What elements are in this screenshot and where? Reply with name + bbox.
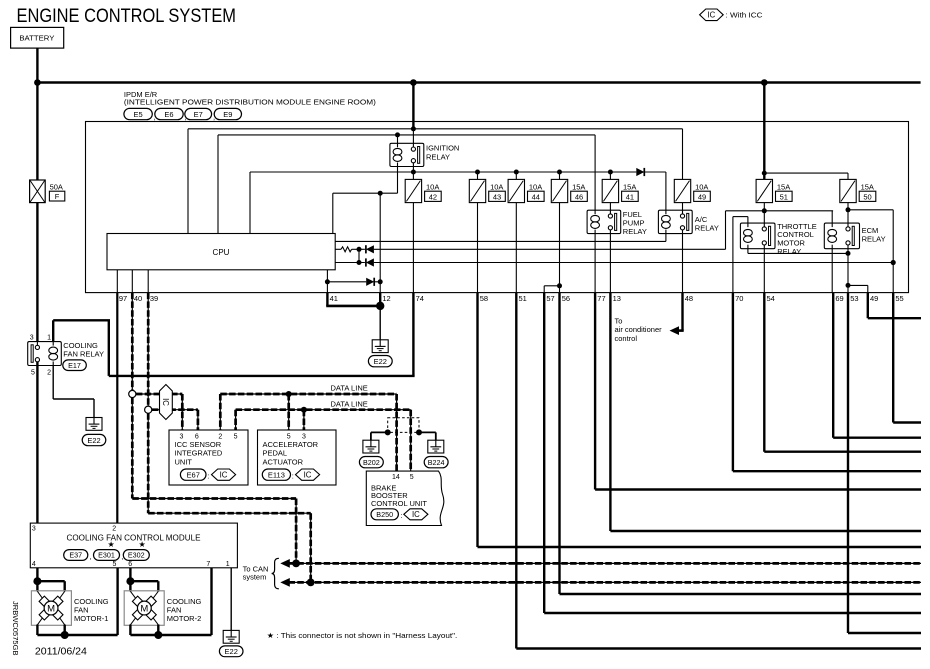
wire pin13 external to right edge xyxy=(609,293,611,531)
wire throttle contact to pin54 xyxy=(763,249,765,293)
wire pin56 external to right edge xyxy=(558,293,560,594)
IPDM E/R box xyxy=(86,122,909,293)
wire CAN line 1 xyxy=(289,562,922,564)
node pin41 diode junction xyxy=(325,279,330,284)
wire main battery bus xyxy=(36,81,921,84)
wire B drop to CPU xyxy=(217,135,219,234)
throttle control motor relay xyxy=(740,223,775,249)
wire A/C contact to pin48 xyxy=(682,234,684,293)
node bus-fuse51 drop junction xyxy=(761,79,768,86)
wire pin54 external to right edge xyxy=(763,293,765,452)
svg-text:air conditioner: air conditioner xyxy=(615,325,663,334)
svg-text:RELAY: RELAY xyxy=(695,224,719,233)
svg-text:INTEGRATED: INTEGRATED xyxy=(175,449,223,458)
svg-text:44: 44 xyxy=(532,192,540,201)
connector E302 xyxy=(123,550,149,561)
svg-text::: : xyxy=(207,472,209,481)
wire pin40 dashed xyxy=(131,293,133,393)
wire branch to pin49 xyxy=(848,284,868,286)
connector E5 xyxy=(124,108,152,119)
wire to CPU from ignition coil xyxy=(332,193,334,233)
diode D1 on wire C xyxy=(636,168,644,176)
svg-text:E113: E113 xyxy=(268,470,285,479)
wire C drop to CPU xyxy=(249,172,251,234)
wire ECM contact bottom xyxy=(847,249,849,293)
arrow to air conditioner control xyxy=(670,326,680,335)
wire pin49 external to right edge xyxy=(867,293,869,319)
svg-text:B202: B202 xyxy=(363,458,380,467)
node throttle-ECM junction xyxy=(846,251,851,256)
connector E22 (module) xyxy=(219,646,243,657)
svg-text:49: 49 xyxy=(870,294,878,303)
svg-text:3: 3 xyxy=(32,526,36,533)
IC hexagon (E67) xyxy=(212,469,236,480)
wire fuse51 bottom xyxy=(763,203,765,211)
wire fuse44 to pin51 xyxy=(515,203,517,293)
wire CPU line2 resistor segment xyxy=(335,248,341,250)
node motor1 top junction xyxy=(33,577,41,585)
resistor R1 xyxy=(341,247,352,252)
wire module pin1 to ground xyxy=(230,568,232,631)
svg-text:E7: E7 xyxy=(194,110,203,119)
svg-text:E22: E22 xyxy=(225,647,238,656)
svg-text:6: 6 xyxy=(128,561,132,568)
diode D3 xyxy=(366,258,374,266)
legend IC hexagon : With ICC xyxy=(700,9,724,21)
svg-text:E302: E302 xyxy=(128,551,145,560)
wire A drop into fuse 49 xyxy=(682,129,684,180)
svg-text:1: 1 xyxy=(47,335,51,342)
svg-text:2: 2 xyxy=(47,369,51,376)
node data line A accel junction xyxy=(286,391,292,397)
node shield-B224 junction xyxy=(416,429,422,435)
svg-text:COOLING: COOLING xyxy=(63,341,98,350)
svg-text:5: 5 xyxy=(31,369,35,376)
node ECM contact split junction xyxy=(846,283,851,288)
connector B250 xyxy=(371,509,398,520)
connector E22 (pin12) xyxy=(368,356,392,367)
wire data line B to brake pin5 xyxy=(410,410,412,471)
wire pin12 external xyxy=(379,293,381,306)
IC marker hexagon (vertical) xyxy=(160,385,173,420)
wire fuse51 rail xyxy=(726,210,834,212)
svg-text:IC: IC xyxy=(304,470,312,479)
wire bus drop to fuse 51 xyxy=(763,83,765,181)
wire fuse44 riser xyxy=(515,172,517,179)
svg-text:ACTUATOR: ACTUATOR xyxy=(263,457,304,466)
svg-text:BATTERY: BATTERY xyxy=(19,33,54,42)
svg-text:54: 54 xyxy=(767,294,775,303)
fuse 44 10A xyxy=(508,179,524,202)
svg-text:15A: 15A xyxy=(623,183,636,192)
wire ECM coil top xyxy=(831,211,833,223)
wire data line A main xyxy=(220,393,396,395)
svg-text:2: 2 xyxy=(218,434,222,441)
svg-text:4: 4 xyxy=(32,561,36,568)
wire ignition coil bottom xyxy=(397,167,399,194)
svg-text:43: 43 xyxy=(493,192,501,201)
svg-text:55: 55 xyxy=(895,294,903,303)
diode D2 xyxy=(366,245,374,253)
fuse 51 15A xyxy=(756,179,772,202)
shield dotted box xyxy=(388,418,419,433)
connector E67 xyxy=(180,469,206,480)
wire to B224 ground xyxy=(419,431,436,433)
wire C to A/C relay coil xyxy=(665,172,667,210)
svg-text:CPU: CPU xyxy=(213,248,230,257)
svg-text:MOTOR-1: MOTOR-1 xyxy=(74,614,108,623)
battery B1 xyxy=(11,27,64,48)
wire data line B to ICC pin6 xyxy=(152,409,198,411)
svg-text:1: 1 xyxy=(226,561,230,568)
svg-text:(INTELLIGENT POWER DISTRIBUTIO: (INTELLIGENT POWER DISTRIBUTION MODULE E… xyxy=(124,98,377,107)
connector B202 xyxy=(359,457,383,468)
svg-text:B224: B224 xyxy=(428,458,445,467)
svg-text:UNIT: UNIT xyxy=(175,457,193,466)
wire fuse41 riser xyxy=(609,172,611,179)
wire fuse49 to A/C contact xyxy=(682,203,684,217)
svg-text:10A: 10A xyxy=(490,183,503,192)
svg-text::: : xyxy=(292,472,294,481)
svg-text:42: 42 xyxy=(429,192,437,201)
ECM relay xyxy=(824,223,859,249)
svg-text:7: 7 xyxy=(206,561,210,568)
svg-text:IC: IC xyxy=(161,398,170,406)
svg-text:2011/06/24: 2011/06/24 xyxy=(35,646,88,657)
wire motor1 to module pin5 xyxy=(65,634,118,636)
op ignition relay feed xyxy=(412,129,414,147)
connector E22 (fan relay) xyxy=(82,434,106,445)
svg-text:3: 3 xyxy=(302,434,306,441)
wire fuel pump contact to pin13 xyxy=(609,234,611,293)
svg-text:CONTROL UNIT: CONTROL UNIT xyxy=(371,499,427,508)
svg-text:JRBWC0575GB: JRBWC0575GB xyxy=(11,601,18,656)
wire fuse46 to pin56 xyxy=(559,203,561,293)
svg-text:15A: 15A xyxy=(861,183,874,192)
cooling fan motor-2 xyxy=(124,591,164,626)
wire A battery rail y129 xyxy=(188,128,683,130)
wire ignition contact to fuse42 xyxy=(412,167,414,180)
ground E22 (module) xyxy=(223,630,239,643)
svg-text:control: control xyxy=(615,334,638,343)
arrow CAN line 1 xyxy=(280,559,290,568)
svg-text:10A: 10A xyxy=(426,183,439,192)
svg-text:RELAY: RELAY xyxy=(777,247,801,256)
ICC sensor integrated unit xyxy=(169,430,248,485)
fuel pump relay xyxy=(587,210,621,233)
svg-text:39: 39 xyxy=(150,294,158,303)
ground E22 (pin12) xyxy=(372,340,388,353)
svg-text:IC: IC xyxy=(412,510,420,519)
wire ignition coil top lead xyxy=(397,135,399,143)
node fuse50 junction xyxy=(846,207,851,212)
connector E301 xyxy=(94,550,120,561)
wire motor2 to module pin7 xyxy=(158,634,211,636)
svg-text:50A: 50A xyxy=(50,183,63,192)
svg-text:15A: 15A xyxy=(572,183,585,192)
svg-text:77: 77 xyxy=(597,294,605,303)
svg-text:F: F xyxy=(55,192,60,201)
node pin39 data junction (open) xyxy=(145,406,152,413)
svg-text:system: system xyxy=(243,573,267,582)
wire data line A drop accel pin5 xyxy=(288,394,290,430)
svg-text:51: 51 xyxy=(519,294,527,303)
svg-text:5: 5 xyxy=(112,561,116,568)
wire fuse42 to pin74 xyxy=(412,203,414,293)
svg-text:6: 6 xyxy=(195,434,199,441)
node fuse51 junction xyxy=(762,208,767,213)
wire CPU pin39 drop xyxy=(147,270,149,293)
svg-text:53: 53 xyxy=(850,294,858,303)
IC hexagon (E113) xyxy=(296,469,320,480)
wire to B202 ground xyxy=(371,431,388,433)
wire data line B main xyxy=(236,409,411,411)
wire pin12 to ground xyxy=(379,306,381,340)
wire fuse50 bottom xyxy=(847,203,849,224)
svg-text::: : xyxy=(400,511,402,520)
fuse 46 15A xyxy=(551,179,567,202)
connector E7 xyxy=(185,108,212,119)
svg-text:,: , xyxy=(90,552,92,561)
wire CPU line3 xyxy=(335,262,365,264)
cooling fan relay E17 xyxy=(28,342,62,366)
svg-text:49: 49 xyxy=(698,192,706,201)
node wire C fuse44 junction xyxy=(514,170,519,175)
svg-text:E17: E17 xyxy=(68,361,81,370)
node battery-bus junction xyxy=(34,79,41,86)
connector E113 xyxy=(262,469,290,480)
cooling fan motor-1 xyxy=(31,591,71,626)
wire battery vertical xyxy=(36,48,38,180)
wire line2-line3 tie xyxy=(358,249,360,262)
wire pin58 external to right edge xyxy=(476,293,478,547)
node motor2 top junction xyxy=(126,577,134,585)
svg-text:46: 46 xyxy=(575,192,583,201)
fuse 50 15A xyxy=(840,179,856,202)
svg-text:IGNITION: IGNITION xyxy=(426,144,459,153)
svg-text:69: 69 xyxy=(835,294,843,303)
CPU U1 xyxy=(107,234,335,270)
wire fuel pump coil top xyxy=(594,135,596,210)
svg-text:13: 13 xyxy=(613,294,621,303)
svg-text:E67: E67 xyxy=(187,470,200,479)
svg-text:DATA LINE: DATA LINE xyxy=(331,399,368,408)
svg-text:M: M xyxy=(140,603,148,614)
wire CPU pin40 drop xyxy=(131,270,133,293)
svg-text:PEDAL: PEDAL xyxy=(263,449,288,458)
svg-text:41: 41 xyxy=(330,294,338,303)
svg-text:B250: B250 xyxy=(376,510,393,519)
wire battery through fan relay contact xyxy=(36,362,38,523)
wire fuse51 to throttle contact xyxy=(763,211,765,223)
wire pin53 external to right edge xyxy=(847,293,849,633)
wire motor1 top feed xyxy=(37,580,64,582)
svg-text:To: To xyxy=(615,316,623,325)
connector B224 xyxy=(424,457,448,468)
connector E37 xyxy=(64,550,88,561)
wire pin55 external to right edge xyxy=(892,293,894,423)
svg-text:E22: E22 xyxy=(87,436,100,445)
ground B224 xyxy=(428,440,444,453)
svg-text:57: 57 xyxy=(546,294,554,303)
connector E6 xyxy=(155,108,183,119)
wire CPU pin97 drop xyxy=(116,270,118,293)
brake booster control unit xyxy=(366,471,444,525)
node wire C fuse46 junction xyxy=(557,170,562,175)
wire B coil rail y135 xyxy=(218,134,595,136)
wire pin48 to A/C control xyxy=(681,293,683,331)
wire pin77 external to right edge xyxy=(594,293,596,490)
wire A/C coil bottom to CPU line1 xyxy=(665,234,667,242)
wire module pin6 xyxy=(129,568,131,581)
svg-text:74: 74 xyxy=(416,294,424,303)
svg-text:10A: 10A xyxy=(695,183,708,192)
wire fuse46 riser xyxy=(559,172,561,179)
wire pin51 external to right edge xyxy=(515,293,517,649)
wire fuse41 to fuel pump contact xyxy=(609,203,611,217)
node bus-ignition drop junction xyxy=(410,79,417,86)
A/C relay xyxy=(658,210,692,233)
fuse 41 15A xyxy=(602,179,618,202)
node line3 junction xyxy=(357,260,362,265)
svg-text:3: 3 xyxy=(180,434,184,441)
svg-text:56: 56 xyxy=(562,294,570,303)
svg-text:RELAY: RELAY xyxy=(862,235,886,244)
svg-text:E22: E22 xyxy=(374,357,387,366)
wire pin57 external to right edge xyxy=(543,293,545,613)
svg-text:41: 41 xyxy=(626,192,634,201)
svg-text:IC: IC xyxy=(707,11,715,20)
node wire A ignition junction xyxy=(411,126,416,131)
fusible link F 50A xyxy=(36,180,38,203)
svg-text:E37: E37 xyxy=(69,551,82,560)
fuse 49 10A xyxy=(674,179,690,202)
wire CAN line 2 xyxy=(289,581,922,583)
wire drop to CPU line2 xyxy=(725,211,727,250)
svg-text:E9: E9 xyxy=(223,110,232,119)
fuse 42 10A xyxy=(405,179,421,202)
wire feed to fuse 50 xyxy=(764,172,848,174)
ignition relay xyxy=(390,143,424,166)
arrow CAN line 2 xyxy=(280,578,290,587)
svg-text:RELAY: RELAY xyxy=(426,153,450,162)
svg-text:E6: E6 xyxy=(164,110,173,119)
wire ECM coil to pin69 xyxy=(831,249,833,293)
ground E22 (fan relay) xyxy=(86,418,102,431)
svg-text:ENGINE CONTROL SYSTEM: ENGINE CONTROL SYSTEM xyxy=(17,5,236,27)
svg-text:: With ICC: : With ICC xyxy=(726,11,764,20)
svg-text:2: 2 xyxy=(112,526,116,533)
wire data line A to brake pin14 xyxy=(396,394,398,471)
wire fan relay coil to ground xyxy=(52,366,54,400)
node pin12 diode junction xyxy=(378,279,383,284)
wire fuel pump coil to pin77 xyxy=(594,234,596,293)
svg-text:COOLING FAN CONTROL MODULE: COOLING FAN CONTROL MODULE xyxy=(67,533,201,542)
wire bus drop to ignition relay xyxy=(412,83,414,129)
wire CPU pin41 drop xyxy=(326,270,328,293)
svg-text:14: 14 xyxy=(392,474,400,481)
wire fuse43 riser xyxy=(477,172,479,179)
svg-text:5: 5 xyxy=(234,434,238,441)
wire pin41 external xyxy=(326,293,328,306)
fuse 43 10A xyxy=(469,179,485,202)
node pin40 data junction (open) xyxy=(129,390,136,397)
svg-text:5: 5 xyxy=(287,434,291,441)
node motor2 bottom junction xyxy=(154,631,162,639)
node pin40-CAN junction xyxy=(292,560,300,568)
wire pin39 dashed lower xyxy=(147,413,149,513)
wire pin40 dashed lower xyxy=(131,398,133,499)
wire CPU line2 xyxy=(352,248,365,250)
node line2 junction xyxy=(357,247,362,252)
node data line B accel junction xyxy=(301,407,307,413)
wire internal pin12 line xyxy=(379,193,381,292)
svg-text:IC: IC xyxy=(220,470,228,479)
wire fuse43 to pin58 xyxy=(477,203,479,293)
accelerator pedal actuator xyxy=(258,430,337,485)
svg-text:5: 5 xyxy=(410,474,414,481)
wire A drop to CPU xyxy=(187,129,189,234)
wire branch to pin57 xyxy=(544,285,559,287)
wire pin39 dashed xyxy=(147,293,149,407)
wire C switched rail y172 xyxy=(250,171,636,173)
node pin39-CAN junction xyxy=(307,579,315,587)
svg-text:51: 51 xyxy=(780,192,788,201)
svg-text:ICC SENSOR: ICC SENSOR xyxy=(175,440,222,449)
node wire B ignition coil junction xyxy=(395,132,400,137)
brace CAN xyxy=(272,558,279,589)
svg-text:E301: E301 xyxy=(98,551,115,560)
svg-text:10A: 10A xyxy=(529,183,542,192)
wire diode line 4 xyxy=(327,281,366,283)
wire pin97 to module pin2 xyxy=(116,293,118,523)
IC hexagon (B250) xyxy=(404,509,428,520)
node pin41-pin12 junction xyxy=(376,302,384,310)
wire motor2 top feed xyxy=(130,580,158,582)
svg-text:50: 50 xyxy=(863,192,871,201)
wire motor1 bottom xyxy=(36,625,38,636)
svg-text:MOTOR-2: MOTOR-2 xyxy=(167,614,201,623)
wire data line A to ICC pin3 xyxy=(136,393,182,395)
connector E9 xyxy=(214,108,241,119)
svg-text:DATA LINE: DATA LINE xyxy=(331,384,368,393)
svg-text:15A: 15A xyxy=(777,183,790,192)
wire pin74 external xyxy=(412,293,414,376)
connector E17 xyxy=(63,360,87,371)
node wire C fuse41 junction xyxy=(608,170,613,175)
node coil-bottom junction xyxy=(378,191,383,196)
wire data line B drop accel pin3 xyxy=(303,410,305,430)
diode D4 xyxy=(366,278,374,286)
svg-text:70: 70 xyxy=(735,294,743,303)
wire pin69 external to right edge xyxy=(832,293,834,438)
wire battery line below fuse F xyxy=(36,203,38,346)
svg-text:★: ★ xyxy=(139,540,146,549)
node shield-B202 junction xyxy=(385,429,391,435)
wire pin70 external to right edge xyxy=(732,293,734,472)
svg-text:RELAY: RELAY xyxy=(623,227,647,236)
svg-text:M: M xyxy=(47,603,55,614)
svg-text:★ : This connector is not show: ★ : This connector is not shown in "Harn… xyxy=(267,631,458,640)
svg-text:58: 58 xyxy=(480,294,488,303)
svg-text:3: 3 xyxy=(30,335,34,342)
svg-text:48: 48 xyxy=(685,294,693,303)
node wire C fuse43 junction xyxy=(475,170,480,175)
svg-text:E5: E5 xyxy=(134,110,143,119)
svg-text:FAN RELAY: FAN RELAY xyxy=(63,350,104,359)
wire module pin4 xyxy=(36,568,38,581)
node pin56/57 junction xyxy=(557,283,562,288)
